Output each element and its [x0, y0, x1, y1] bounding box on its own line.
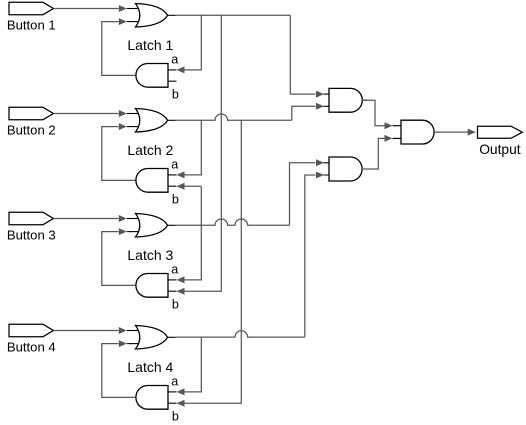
- AND gate U3 (final): [393, 126, 440, 139]
- svg-text:b: b: [172, 193, 179, 207]
- wire U2 output to final AND input 2: [362, 138, 385, 169]
- wire Latch 4 output feedback to OR4 input 2: [102, 344, 136, 398]
- wire OR2 up to AND gate U1 input 2: [292, 106, 316, 120]
- wire OR4 to Latch4 a: [185, 337, 202, 392]
- svg-text:a: a: [171, 53, 178, 67]
- svg-text:Button 4: Button 4: [7, 339, 56, 354]
- wire Button 4 to OR4 input 1: [53, 330, 118, 332]
- AND gate Latch 4 (mirrored): [168, 391, 177, 393]
- wire OR4 output horizontal run with hop over x=241.3: [175, 331, 304, 337]
- wire OR2 to Latch4 b (long vertical at x=241.3): [185, 120, 242, 403]
- wire U1 output to final AND input 1: [362, 100, 385, 126]
- wire Button 3 to OR3 input 1: [53, 218, 118, 220]
- svg-text:Latch 4: Latch 4: [127, 359, 173, 375]
- wire Latch 3 output feedback to OR3 input 2: [102, 232, 136, 286]
- wire Latch 2 output feedback to OR2 input 2: [102, 127, 136, 181]
- svg-text:Button 1: Button 1: [7, 17, 56, 32]
- svg-text:Latch 3: Latch 3: [127, 247, 173, 263]
- AND gate Latch 2 (mirrored): [168, 174, 177, 176]
- wire OR3 up to AND gate U2 input 1: [290, 163, 316, 226]
- wire OR2 output horizontal run with hop over x=221.3: [175, 114, 291, 120]
- wire OR1 down to AND gate U1 input 1: [290, 15, 315, 94]
- input tag Button 4: [9, 324, 53, 336]
- svg-text:b: b: [172, 410, 179, 424]
- output tag Output: [478, 126, 523, 138]
- svg-text:Output: Output: [479, 142, 521, 157]
- svg-text:a: a: [171, 263, 178, 277]
- wire OR4 up to AND gate U2 input 2: [305, 175, 316, 337]
- OR gate 1: [127, 8, 140, 10]
- wire Latch 1 output feedback to OR1 input 2: [102, 22, 136, 76]
- svg-text:Button 2: Button 2: [7, 122, 56, 137]
- input tag Button 1: [9, 2, 53, 14]
- svg-text:Latch 1: Latch 1: [127, 37, 173, 53]
- svg-text:b: b: [172, 298, 179, 312]
- AND gate Latch 3 (mirrored): [168, 279, 177, 281]
- OR gate 2: [127, 113, 140, 115]
- wire Button 2 to OR2 input 1: [53, 113, 118, 115]
- OR gate 4: [127, 330, 140, 332]
- wire OR3 output horizontal run with hops over x=221.3 and x=241.3: [175, 219, 289, 225]
- AND gate U1 (top middle): [324, 94, 368, 106]
- wire OR2 to Latch2 a: [185, 120, 202, 175]
- wire OR1 to Latch1 a (vertical at x=201.3): [185, 15, 202, 70]
- wire Button 1 to OR1 input 1: [53, 8, 118, 10]
- AND gate Latch 1 (mirrored): [168, 69, 177, 71]
- svg-text:Latch 2: Latch 2: [127, 142, 173, 158]
- input tag Button 2: [9, 107, 53, 119]
- wire OR1 output horizontal run: [175, 14, 290, 16]
- wire U3 output to Output tag: [434, 131, 468, 133]
- svg-text:Button 3: Button 3: [7, 227, 56, 242]
- wire OR1 to Latch3 b (long vertical at x=221.3): [185, 15, 222, 291]
- svg-text:a: a: [171, 375, 178, 389]
- AND gate U2 (bottom middle): [324, 163, 368, 175]
- input tag Button 3: [9, 212, 53, 224]
- wire OR3 to Latch2 b and Latch3 a (vertical at x=201.3): [185, 186, 202, 280]
- svg-text:b: b: [172, 88, 179, 102]
- svg-text:a: a: [171, 158, 178, 172]
- OR gate 3: [127, 218, 140, 220]
